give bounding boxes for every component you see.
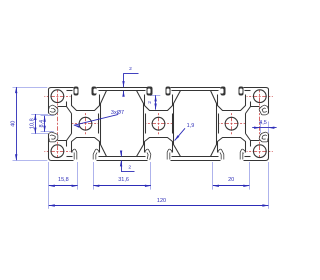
svg-text:8,4: 8,4 [39,120,45,128]
svg-text:20: 20 [228,177,234,183]
svg-text:15,8: 15,8 [58,177,69,183]
svg-text:1,9: 1,9 [187,123,195,129]
svg-text:2: 2 [129,66,132,72]
svg-text:120: 120 [157,198,166,204]
svg-text:3xØ7: 3xØ7 [111,110,124,116]
svg-text:10,8: 10,8 [29,118,35,129]
svg-text:2: 2 [147,101,153,104]
svg-text:2: 2 [128,164,131,170]
svg-text:31,6: 31,6 [118,177,129,183]
svg-text:4,5: 4,5 [259,120,267,126]
svg-text:40: 40 [11,121,17,127]
